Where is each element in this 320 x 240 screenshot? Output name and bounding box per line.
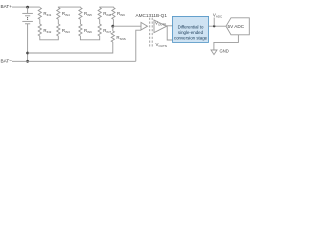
wire top jumper col2-col3 xyxy=(58,6,80,8)
resistor RIN3 xyxy=(57,24,60,36)
wire column 1 mid connector xyxy=(39,19,41,24)
wire ADC to GND xyxy=(214,35,239,50)
svg-text:BAT+: BAT+ xyxy=(1,4,13,9)
wire VADC stub xyxy=(213,18,215,27)
resistor RIN4 xyxy=(57,8,60,20)
resistor RIN8 xyxy=(98,8,101,20)
svg-text:conversion stage: conversion stage xyxy=(174,36,208,41)
isolation barrier (dashed) xyxy=(150,18,153,47)
resistor RIN2 xyxy=(38,24,41,36)
node junction battery/sense bus xyxy=(26,52,29,55)
wire top jumper col4-col5 xyxy=(100,6,114,8)
wire conversion stage to ADC xyxy=(209,25,227,27)
op-amp U1 input buffer triangle xyxy=(141,22,148,30)
wire column 2 mid connector xyxy=(57,19,59,24)
svg-text:RIN1: RIN1 xyxy=(43,11,51,17)
svg-text:RIN6: RIN6 xyxy=(84,28,92,34)
wire bottom jumper col1-col2 xyxy=(40,36,59,40)
node VADC junction xyxy=(213,25,215,27)
wire tap to AMC VINP xyxy=(113,25,141,27)
resistor RIN1 xyxy=(38,8,41,20)
svg-text:RIN7: RIN7 xyxy=(103,28,111,34)
wire BAT- rail xyxy=(12,60,136,62)
resistor RIN7 xyxy=(98,24,101,36)
resistor RIN9 xyxy=(112,8,115,20)
resistor RSNS (sense) xyxy=(112,26,114,31)
node divider tap xyxy=(111,25,114,28)
svg-text:AMC1311B-Q1: AMC1311B-Q1 xyxy=(136,13,168,18)
op-amp U1 output amplifier triangle xyxy=(154,20,167,33)
node junction battery/BAT- rail xyxy=(26,60,29,63)
wire VOUTP xyxy=(166,25,173,27)
svg-text:GND: GND xyxy=(220,48,229,53)
wire col5 to tap node xyxy=(112,19,114,26)
wire column 3 mid connector xyxy=(79,19,81,24)
svg-text:RIN5: RIN5 xyxy=(84,11,92,17)
svg-text:RIN3: RIN3 xyxy=(62,28,70,34)
svg-text:Differential to: Differential to xyxy=(178,25,204,30)
svg-text:single-ended: single-ended xyxy=(178,30,204,35)
svg-text:RIN9: RIN9 xyxy=(117,11,125,17)
wire column 4 mid connector xyxy=(99,19,101,24)
wire VOUTN xyxy=(166,26,173,40)
block: differential to single-ended conversion stage xyxy=(173,16,209,42)
wire bottom jumper col3-col4 xyxy=(80,36,99,40)
svg-text:RSNS: RSNS xyxy=(116,35,125,41)
svg-text:RIN8: RIN8 xyxy=(103,11,111,17)
svg-text:5V ADC: 5V ADC xyxy=(228,24,245,29)
wire VINN return to BAT- rail xyxy=(136,30,141,61)
ADC block (5V ADC) xyxy=(226,18,249,35)
svg-text:VOUTP: VOUTP xyxy=(155,20,166,26)
resistor RIN5 xyxy=(79,8,82,20)
ground GND symbol xyxy=(211,50,217,55)
battery BT1 (cell stack) xyxy=(22,7,33,61)
wire BAT+ rail xyxy=(12,6,40,8)
svg-text:BAT−: BAT− xyxy=(1,59,13,64)
svg-text:RIN2: RIN2 xyxy=(43,28,51,34)
node junction BAT+/battery xyxy=(26,6,29,9)
resistor RIN6 xyxy=(79,24,82,36)
wire sense resistor to BAT- bus xyxy=(28,42,113,53)
svg-text:RIN4: RIN4 xyxy=(62,11,70,17)
svg-text:VOUTN: VOUTN xyxy=(156,42,167,48)
